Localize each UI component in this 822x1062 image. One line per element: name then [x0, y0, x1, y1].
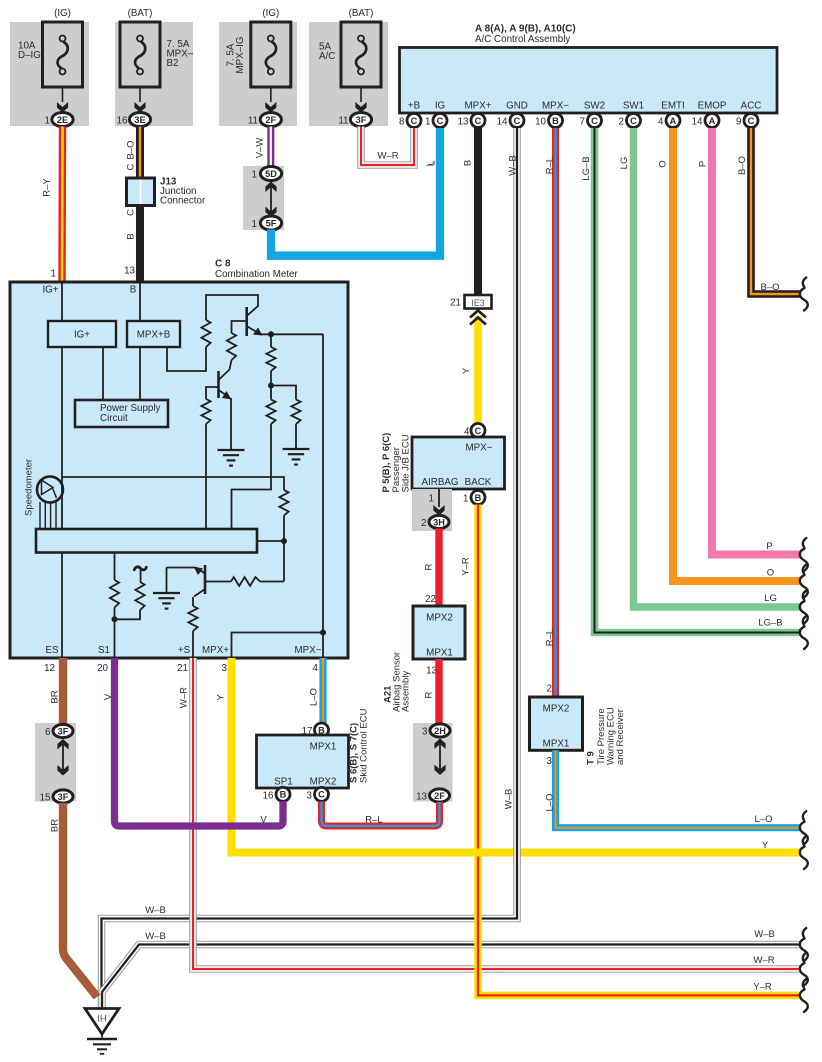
fuse block 5A A/C [309, 22, 388, 126]
resistor R8 [110, 580, 119, 608]
svg-text:Speedometer: Speedometer [24, 459, 35, 516]
pin 17 B of skid control ECU [315, 723, 329, 737]
svg-text:14: 14 [692, 116, 703, 127]
connector oval 3F upper [53, 724, 73, 737]
bus bar rectangle [36, 529, 257, 553]
ground G1 inside meter [218, 449, 245, 451]
resistor R7 [279, 490, 288, 516]
svg-text:R–L: R–L [545, 629, 556, 646]
wire W-R meter +S pin to right edge [193, 658, 801, 969]
svg-text:Y–R: Y–R [461, 557, 472, 576]
wire R-Y fuse 2E to combination meter IG+ [58, 127, 66, 282]
svg-text:14: 14 [497, 116, 508, 127]
svg-text:2E: 2E [57, 115, 68, 125]
svg-text:9: 9 [736, 116, 741, 127]
wire R airbag sensor to 2H [435, 659, 442, 724]
wire Q1 base to resistor R2 [232, 321, 247, 333]
svg-text:(BAT): (BAT) [349, 8, 374, 19]
svg-text:LG–B: LG–B [758, 618, 782, 629]
svg-text:Side J/B ECU: Side J/B ECU [401, 434, 412, 492]
squiggle continuation B-O [803, 278, 806, 287]
wire B A/C MPX+ pin to connector IE3 [474, 128, 482, 295]
transistor Q1 [245, 307, 248, 336]
svg-text:6: 6 [45, 727, 51, 738]
svg-text:D–IG: D–IG [18, 50, 41, 61]
svg-text:MPX−: MPX− [542, 101, 569, 112]
svg-text:P: P [766, 541, 772, 552]
svg-text:C: C [591, 116, 598, 126]
wire P A/C EMOP pin to right edge [712, 128, 801, 555]
svg-text:Y: Y [215, 694, 226, 701]
svg-text:21: 21 [177, 663, 188, 674]
svg-text:L–O: L–O [545, 794, 556, 812]
wire jog line A to bus [232, 477, 272, 529]
node N5 dot [320, 630, 326, 636]
svg-text:C: C [437, 116, 444, 126]
svg-text:SW1: SW1 [623, 101, 644, 112]
squiggle continuation LG-B [803, 616, 806, 625]
svg-text:MPX1: MPX1 [426, 648, 453, 659]
svg-text:L–O: L–O [755, 814, 773, 825]
node N4 dot [112, 616, 118, 622]
wire MPX+ internal [232, 633, 324, 659]
svg-text:3: 3 [547, 756, 553, 767]
svg-text:AIRBAG: AIRBAG [421, 477, 458, 488]
svg-text:IE3: IE3 [471, 298, 484, 308]
wire Q3 base to resistor R11 [192, 597, 194, 606]
svg-text:L–O: L–O [309, 688, 320, 706]
svg-text:1: 1 [463, 494, 468, 505]
svg-text:W–B: W–B [145, 905, 166, 916]
svg-text:MPX2: MPX2 [426, 613, 453, 624]
svg-text:1: 1 [45, 115, 50, 126]
svg-text:16: 16 [263, 790, 274, 801]
svg-text:20: 20 [97, 663, 108, 674]
svg-text:1: 1 [252, 169, 257, 180]
svg-text:C: C [630, 116, 637, 126]
svg-text:V: V [103, 693, 114, 700]
squiggle continuation W-B [803, 928, 806, 937]
wire meter IG+ vertical [61, 282, 63, 529]
svg-text:B: B [126, 233, 137, 239]
resistor R3 [266, 347, 275, 371]
connector oval 3F lower [53, 790, 73, 803]
svg-text:BACK: BACK [465, 477, 492, 488]
svg-text:B–O: B–O [737, 156, 748, 175]
svg-text:8: 8 [399, 116, 405, 127]
svg-text:Y: Y [461, 367, 472, 374]
transistor Q3 [204, 565, 207, 594]
svg-text:11: 11 [338, 115, 348, 126]
node N2 dot [268, 383, 274, 389]
svg-text:Connector: Connector [160, 196, 206, 207]
speedometer symbol [37, 477, 63, 503]
squiggle continuation O [803, 565, 806, 574]
svg-text:W–B: W–B [145, 931, 166, 942]
wire W-B lower run to right edge [102, 945, 801, 1009]
wire node N1 down [270, 334, 272, 347]
svg-text:1: 1 [429, 494, 434, 505]
wire B-O A/C ACC pin to right edge [751, 128, 801, 294]
internal box power supply circuit [75, 400, 168, 427]
svg-text:(BAT): (BAT) [128, 8, 153, 19]
wire Y meter MPX+ pin to right edge [232, 658, 802, 853]
tire pressure ECU box T9 [530, 697, 583, 750]
ground IH bars [87, 1038, 117, 1040]
svg-text:B: B [130, 285, 137, 296]
junction 3F/3F gray block [35, 723, 76, 802]
svg-text:3E: 3E [134, 115, 145, 125]
wire right vertical to MPX nodes [322, 334, 324, 632]
wire Q2 base to resistor R6 [206, 387, 219, 399]
svg-text:MPX+: MPX+ [202, 645, 229, 656]
svg-text:MPX+: MPX+ [465, 101, 492, 112]
svg-text:3F: 3F [58, 792, 69, 802]
junction arrows between 2H and 2F [434, 739, 445, 750]
svg-text:5D: 5D [265, 169, 277, 179]
wire W-B A/C GND pin down to ground bus [102, 128, 518, 1008]
svg-text:R: R [424, 563, 435, 570]
svg-text:SW2: SW2 [584, 101, 605, 112]
svg-text:W–B: W–B [504, 789, 515, 810]
svg-text:C: C [475, 116, 482, 126]
wire BR meter ES pin to 3F [59, 658, 67, 724]
svg-text:R: R [424, 691, 435, 698]
squiggle continuation P [803, 538, 806, 547]
internal box IG+ [48, 321, 116, 347]
svg-text:3F: 3F [356, 115, 367, 125]
svg-text:W–R: W–R [753, 955, 774, 966]
svg-text:3: 3 [422, 727, 428, 738]
svg-text:R–Y: R–Y [42, 178, 53, 197]
svg-text:MPX–IG: MPX–IG [235, 36, 246, 73]
resistor R2 [227, 333, 236, 360]
svg-text:MPX2: MPX2 [543, 704, 570, 715]
pin 3 C of skid control ECU [315, 787, 329, 801]
svg-text:+B: +B [408, 101, 421, 112]
svg-text:MPX1: MPX1 [543, 739, 570, 750]
svg-text:16: 16 [117, 115, 128, 126]
svg-text:Assembly: Assembly [401, 671, 412, 712]
svg-text:12: 12 [44, 663, 55, 674]
svg-text:R–L: R–L [545, 157, 556, 174]
svg-text:B: B [280, 790, 287, 800]
pin 4 C of passenger J/B ECU [471, 424, 485, 438]
svg-text:+S: +S [178, 645, 191, 656]
wire L-O tire pressure ECU to right edge [556, 750, 802, 827]
svg-text:1: 1 [51, 269, 56, 280]
speedometer leads [39, 502, 41, 529]
svg-text:A 8(A), A 9(B), A10(C): A 8(A), A 9(B), A10(C) [475, 24, 576, 35]
svg-text:W–B: W–B [754, 929, 775, 940]
wire LG-B A/C SW2 pin to right edge [595, 128, 802, 633]
resistor R5 [291, 400, 300, 425]
svg-text:IG+: IG+ [74, 330, 90, 341]
svg-text:(IG): (IG) [54, 8, 71, 19]
wire BR 3F to ground IH [63, 803, 97, 997]
svg-text:21: 21 [450, 298, 461, 309]
svg-text:3H: 3H [433, 517, 445, 527]
svg-text:4: 4 [313, 663, 319, 674]
svg-text:EMOP: EMOP [698, 101, 727, 112]
svg-text:A: A [670, 116, 677, 126]
gray block below AIRBAG pin [412, 489, 452, 531]
svg-text:C: C [126, 163, 137, 170]
wire R10 to node N3 branch [260, 581, 284, 583]
sensor hook above R9 [140, 570, 142, 583]
svg-text:7: 7 [580, 116, 585, 127]
svg-text:3F: 3F [58, 726, 69, 736]
svg-text:MPX+B: MPX+B [137, 330, 171, 341]
svg-text:B: B [552, 116, 559, 126]
wire node N3 to Q3 collector net [283, 541, 285, 582]
svg-text:GND: GND [506, 101, 528, 112]
svg-text:C: C [748, 116, 755, 126]
svg-text:1: 1 [425, 116, 430, 127]
svg-text:O: O [658, 160, 669, 167]
svg-text:2F: 2F [265, 115, 276, 125]
svg-text:V–W: V–W [255, 138, 266, 159]
connector oval 2F [430, 789, 450, 802]
A/C control assembly box A8/A9/A10 [400, 48, 778, 114]
connector oval 5D [260, 167, 281, 181]
ground G2 inside meter [283, 448, 310, 450]
svg-text:4: 4 [658, 116, 664, 127]
wire Q3 emitter to ground G3 [167, 567, 195, 569]
wire W-B overlay at Y crossing [513, 842, 521, 864]
svg-text:Y: Y [762, 840, 769, 851]
wire R-L skid control 3C to 2F [322, 802, 440, 827]
svg-text:P: P [698, 161, 709, 167]
skid control ECU box S6/S7 [257, 735, 349, 788]
ground IH triangle [85, 1009, 119, 1035]
svg-text:A/C: A/C [319, 51, 335, 62]
resistor R6 [201, 399, 210, 424]
svg-text:13: 13 [416, 792, 427, 803]
svg-text:O: O [767, 568, 774, 579]
svg-text:MPX−: MPX− [466, 443, 493, 454]
connector oval 3H [429, 515, 449, 528]
wire V S1 pin to skid control SP1 [115, 658, 284, 826]
wire W-R fuse 3F to A/C +B pin [361, 127, 414, 166]
svg-text:EMTI: EMTI [661, 101, 684, 112]
svg-text:LG: LG [619, 157, 630, 170]
wire node N1 to right vertical [271, 333, 323, 335]
svg-text:MPX2: MPX2 [310, 777, 337, 788]
svg-text:3: 3 [307, 790, 313, 801]
svg-text:IH: IH [97, 1014, 107, 1025]
svg-text:and Receiver: and Receiver [615, 709, 626, 765]
svg-text:B2: B2 [167, 58, 179, 69]
wire Q2 collector to R2 [230, 360, 232, 370]
svg-text:C 8: C 8 [215, 259, 231, 270]
wire Q1 emitter to node N1 [260, 333, 271, 335]
squiggle continuation W-R [803, 953, 806, 962]
svg-text:V: V [260, 815, 267, 826]
fuse block 7.5A MPX-IG [219, 22, 297, 126]
svg-text:(IG): (IG) [262, 8, 279, 19]
resistor R4 [270, 386, 272, 400]
svg-text:Circuit: Circuit [100, 413, 128, 424]
junction 2H/2F gray block [413, 723, 453, 802]
wire bus to ES pin [61, 553, 63, 659]
passenger side J/B ECU box P5/P6 [412, 437, 505, 489]
wire IG+ box to power supply [102, 347, 104, 400]
svg-text:MPX−: MPX− [295, 645, 322, 656]
wire V-W fuse 2F to junction 5D [267, 127, 274, 168]
wire B junction J13 to combination meter pin B [136, 206, 144, 282]
svg-text:3: 3 [222, 663, 228, 674]
wire MPX+B box loop to resistor R1 [167, 347, 206, 371]
squiggle continuation LG [803, 591, 806, 600]
wire line A IG+ to R4 bottom [62, 476, 271, 478]
fuse block 7.5A MPX-B2 [115, 22, 193, 126]
wire L junction 5F to A/C IG pin [271, 128, 440, 256]
wire meter B vertical to MPX+B box [139, 282, 141, 321]
ground G3 inside meter [166, 568, 168, 594]
resistor R9 [135, 582, 144, 610]
connector oval 5F [260, 216, 281, 230]
resistor R1 [201, 320, 210, 347]
junction 5D/5F gray block [243, 166, 284, 230]
wire MPX+B box to power supply [139, 347, 141, 400]
wire O A/C EMTI pin to right edge [673, 128, 801, 581]
wire R-L A/C MPX- pin to tire pressure ECU pin 2 [552, 128, 559, 697]
svg-text:C: C [475, 426, 482, 436]
svg-text:W–R: W–R [377, 151, 398, 162]
svg-text:W–R: W–R [179, 687, 190, 708]
wire B-O fuse 3E to junction J13 [136, 127, 144, 179]
wire Q2 emitter to ground G1 [230, 398, 232, 450]
resistor R11 [188, 606, 197, 631]
svg-text:W–B: W–B [508, 155, 519, 176]
svg-text:2: 2 [547, 684, 552, 695]
svg-text:A: A [709, 116, 716, 126]
wire Y-R passenger BACK pin to right edge [478, 505, 801, 996]
svg-text:13: 13 [124, 266, 135, 277]
stub of W-R wire elbow [426, 162, 433, 166]
svg-text:IG: IG [435, 101, 445, 112]
svg-text:MPX1: MPX1 [310, 742, 337, 753]
svg-text:10: 10 [535, 116, 546, 127]
node N1 dot [268, 331, 274, 337]
internal box MPX+B [127, 321, 180, 347]
svg-text:13: 13 [458, 116, 469, 127]
wire L-O meter MPX- to skid control ECU [319, 658, 326, 723]
combination meter box C8 [10, 282, 348, 658]
svg-text:Y–R: Y–R [753, 982, 772, 993]
junction arrows between 5D and 5F [265, 182, 276, 193]
squiggle continuation L-O [803, 811, 806, 820]
svg-text:S1: S1 [98, 645, 110, 656]
svg-text:B–O: B–O [760, 282, 779, 293]
connector oval 2H [430, 724, 450, 737]
svg-text:C: C [318, 790, 325, 800]
svg-text:2F: 2F [434, 791, 445, 801]
wire bus to node N3 [257, 540, 284, 542]
svg-text:C: C [126, 209, 137, 216]
resistor R10 horizontal [231, 577, 260, 586]
wire bus to S1 pin upper [114, 553, 116, 581]
svg-text:R–L: R–L [365, 815, 382, 826]
svg-text:ACC: ACC [741, 101, 762, 112]
squiggle continuation Y [803, 836, 806, 845]
wire line A right branch to resistor R7 [271, 477, 284, 490]
svg-text:BR: BR [49, 819, 60, 832]
svg-text:A/C Control Assembly: A/C Control Assembly [475, 34, 570, 45]
wire R 3H to airbag sensor assembly [435, 529, 442, 607]
svg-text:Combination Meter: Combination Meter [215, 269, 299, 280]
svg-text:22: 22 [425, 594, 436, 605]
junction connector J13 [127, 178, 155, 206]
svg-text:C: C [514, 116, 521, 126]
svg-text:LG–B: LG–B [581, 156, 592, 180]
pin 16 B of skid control ECU [276, 787, 290, 801]
wire Q3 collector to resistor R10 [205, 581, 231, 583]
wire MPX- internal [322, 633, 324, 659]
svg-text:SP1: SP1 [274, 777, 293, 788]
wire LG A/C SW1 pin to right edge [634, 128, 802, 607]
wire R3 to node N2 [270, 371, 272, 384]
wire Y IE3 to passenger J/B ECU pin 4 [474, 316, 482, 424]
svg-text:LG: LG [764, 593, 777, 604]
shield chevrons below IE3 [470, 311, 486, 318]
svg-text:11: 11 [248, 115, 258, 126]
svg-text:ES: ES [45, 645, 59, 656]
fuse block 10A D-IG [10, 22, 89, 126]
connector IE3 [465, 295, 492, 309]
wire node N2 to resistor R5 [271, 386, 296, 400]
wire top rail R1 to Q1 collector [206, 295, 258, 320]
svg-text:B: B [463, 160, 474, 166]
svg-text:B–O: B–O [126, 140, 137, 159]
svg-text:5F: 5F [266, 218, 277, 228]
svg-text:2H: 2H [434, 726, 446, 736]
transistor Q2 [217, 371, 220, 398]
svg-text:IG+: IG+ [42, 285, 58, 296]
pin 1 B of passenger J/B ECU [471, 491, 485, 505]
svg-text:BR: BR [49, 690, 60, 703]
svg-text:1: 1 [252, 219, 257, 230]
node N3 dot [281, 538, 287, 544]
junction arrows between 3F and 3F [57, 739, 68, 750]
airbag sensor assembly box A21 [413, 606, 465, 659]
svg-text:T 9: T 9 [586, 751, 597, 765]
svg-text:B: B [475, 493, 482, 503]
svg-text:C: C [411, 116, 418, 126]
svg-text:2: 2 [619, 116, 624, 127]
svg-text:Skid Control ECU: Skid Control ECU [359, 708, 370, 783]
svg-text:2: 2 [421, 518, 426, 529]
svg-text:15: 15 [40, 793, 51, 804]
squiggle continuation Y-R [803, 979, 806, 988]
